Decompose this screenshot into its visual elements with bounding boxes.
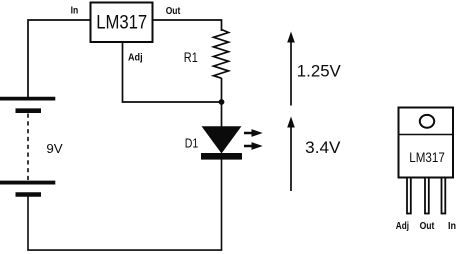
svg-text:D1: D1 <box>185 135 199 150</box>
junction node <box>219 99 225 105</box>
voltage arrow 3.4V across LED <box>287 117 295 192</box>
battery negative plate top cell <box>16 108 42 113</box>
svg-text:In: In <box>71 5 79 16</box>
pin label Adj <box>128 52 143 63</box>
pin label In (package) <box>448 221 456 232</box>
label D1 <box>185 135 199 150</box>
svg-text:1.25V: 1.25V <box>297 61 342 80</box>
TO-220 package outline <box>399 108 454 178</box>
battery negative plate bottom cell <box>16 192 42 197</box>
TO-220 pin 1 leg <box>407 178 411 214</box>
svg-text:9V: 9V <box>46 141 63 156</box>
LED light emission arrows <box>244 129 263 150</box>
svg-text:In: In <box>448 221 456 232</box>
svg-text:Out: Out <box>166 6 181 17</box>
TO-220 pin 2 leg <box>425 178 429 214</box>
resistor R1 <box>214 30 229 79</box>
battery dashed link <box>27 114 29 181</box>
TO-220 pin 3 leg <box>442 178 446 214</box>
label 1.25V <box>297 61 342 80</box>
battery B1 positive plate top cell <box>0 97 55 101</box>
pin label Out (package) <box>420 221 435 232</box>
svg-text:Adj: Adj <box>128 52 143 63</box>
wire battery positive to LM317 In <box>28 20 90 98</box>
svg-text:R1: R1 <box>184 50 198 65</box>
wire R1 to junction <box>221 78 223 101</box>
TO-220 device label LM317 <box>409 150 445 165</box>
battery positive plate bottom cell <box>0 181 55 185</box>
svg-text:3.4V: 3.4V <box>305 138 341 157</box>
label 9V <box>46 141 63 156</box>
pin label In <box>71 5 79 16</box>
svg-text:Adj: Adj <box>396 221 409 232</box>
svg-text:Out: Out <box>420 221 435 232</box>
TO-220 mounting hole <box>420 115 434 128</box>
wire battery negative to bottom rail <box>28 197 222 251</box>
wire LM317 Out to R1 <box>153 20 222 31</box>
regulator U1 LM317 <box>91 3 153 43</box>
svg-text:LM317: LM317 <box>409 150 445 165</box>
wire LED cathode to bottom rail <box>221 160 223 251</box>
label 3.4V <box>305 138 341 157</box>
pin label Out <box>166 6 181 17</box>
wire LM317 Adj pin down and right to junction <box>123 42 220 102</box>
label R1 <box>184 50 198 65</box>
wire junction to LED anode <box>221 102 223 127</box>
svg-text:LM317: LM317 <box>96 12 147 34</box>
LED D1 <box>201 126 242 159</box>
voltage arrow 1.25V across R1 <box>287 32 295 106</box>
pin label Adj (package) <box>396 221 409 232</box>
